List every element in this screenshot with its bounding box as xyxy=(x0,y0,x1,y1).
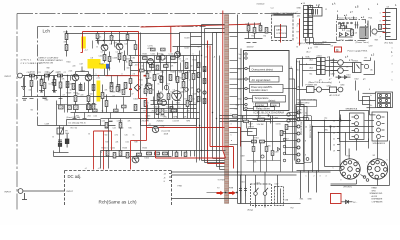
IC pin labels xyxy=(235,54,243,110)
terminal strip left of speaker blocks xyxy=(337,118,340,167)
bus turn to bottom xyxy=(202,159,225,170)
svg-text:C307: C307 xyxy=(249,124,253,126)
block relay driver xyxy=(254,104,275,110)
svg-text:0.5: 0.5 xyxy=(181,88,183,90)
svg-text:1.2: 1.2 xyxy=(116,52,119,54)
svg-text:RY601: RY601 xyxy=(353,61,359,63)
bus wires vertical center xyxy=(202,25,220,170)
wiring harness ribbon xyxy=(225,15,229,204)
svg-text:2.2k: 2.2k xyxy=(97,78,100,80)
svg-text:operation detect: operation detect xyxy=(251,89,268,92)
small box sw rear xyxy=(301,100,317,107)
svg-text:IC301 BLOCK DIAGRAM: IC301 BLOCK DIAGRAM xyxy=(254,110,285,114)
resistor network input filter xyxy=(30,74,63,92)
svg-text:3: 3 xyxy=(320,176,321,178)
svg-text:1.5k: 1.5k xyxy=(105,128,108,130)
svg-text:D1: D1 xyxy=(161,92,163,94)
extra red ticks rear connector xyxy=(383,13,386,33)
highlight yellow mid block xyxy=(88,59,101,69)
junction dots bus xyxy=(199,55,325,176)
svg-text:C9: C9 xyxy=(113,96,115,98)
svg-text:3: 3 xyxy=(380,21,381,23)
svg-text:▲: ▲ xyxy=(338,23,340,26)
svg-text:b: b xyxy=(72,75,73,77)
svg-text:D3: D3 xyxy=(168,84,170,86)
capacitor cluster digital supply xyxy=(245,23,268,43)
svg-text:R309: R309 xyxy=(241,156,245,158)
svg-text:22k: 22k xyxy=(116,142,119,144)
svg-text:POWER SW: POWER SW xyxy=(306,85,317,87)
svg-text:INPUT: INPUT xyxy=(5,76,12,78)
svg-text:560: 560 xyxy=(105,135,108,137)
svg-text:+2: +2 xyxy=(85,168,87,170)
red tick labels Rch top xyxy=(85,134,108,171)
svg-text:1.5k 3W: 1.5k 3W xyxy=(257,124,264,126)
micro text speckle layer xyxy=(29,47,217,144)
transistor Q105 input pair xyxy=(72,74,79,81)
svg-text:C510: C510 xyxy=(304,40,308,42)
svg-text:33k: 33k xyxy=(64,42,67,44)
socket wires xyxy=(331,139,390,186)
bias components under Q101 xyxy=(108,51,132,84)
ground input Lch xyxy=(21,78,26,90)
svg-text:0.22: 0.22 xyxy=(157,107,161,109)
svg-text:B+56V: B+56V xyxy=(185,38,191,40)
svg-text:C0: C0 xyxy=(193,99,195,101)
svg-text:4: 4 xyxy=(392,72,393,74)
highlight yellow vertical bar xyxy=(97,81,101,102)
svg-text:220: 220 xyxy=(157,74,160,76)
svg-text:(Case ID): (Case ID) xyxy=(162,131,171,133)
svg-text:1k: 1k xyxy=(158,84,160,86)
svg-text:2.2k: 2.2k xyxy=(69,71,73,73)
svg-text:▲11: ▲11 xyxy=(308,47,313,50)
svg-text:6: 6 xyxy=(297,38,298,40)
svg-text:1: 1 xyxy=(380,13,381,15)
bottom long wires xyxy=(172,171,343,204)
main P.W.B. box top edge xyxy=(180,33,272,57)
svg-text:C1: C1 xyxy=(246,24,248,26)
ground rail symbols xyxy=(22,99,63,101)
svg-text:4.7k: 4.7k xyxy=(114,43,118,45)
svg-text:2: 2 xyxy=(297,12,298,14)
red trace top bus xyxy=(141,24,281,53)
svg-text:R510: R510 xyxy=(323,42,327,44)
svg-text:47k: 47k xyxy=(128,121,131,123)
svg-text:4: 4 xyxy=(297,26,298,28)
svg-text:R155: R155 xyxy=(143,148,148,150)
svg-text:▲8: ▲8 xyxy=(327,56,330,59)
svg-text:Vcc: Vcc xyxy=(239,54,242,56)
power switch SW901 xyxy=(297,87,322,93)
note red annotation xyxy=(21,60,43,65)
svg-text:R1: R1 xyxy=(39,72,41,74)
svg-text:220: 220 xyxy=(56,72,59,74)
resistor row top of Rch xyxy=(102,151,169,157)
svg-text:INPUT: INPUT xyxy=(67,191,74,193)
svg-text:DC...: DC... xyxy=(353,202,358,204)
svg-text:▲: ▲ xyxy=(337,10,339,13)
svg-text:6V 7.5k: 6V 7.5k xyxy=(71,128,77,130)
svg-text:1: 1 xyxy=(392,48,393,50)
relay socket front xyxy=(340,159,360,179)
svg-text:CN1: CN1 xyxy=(300,199,304,201)
transistor Q101 xyxy=(101,44,108,51)
svg-text:▲7: ▲7 xyxy=(329,78,332,81)
connector CN301 xyxy=(296,105,304,164)
svg-text:CN(L,R) A6-B02: CN(L,R) A6-B02 xyxy=(300,121,303,136)
svg-text:X1234-00: X1234-00 xyxy=(257,4,265,6)
red tag B xyxy=(335,47,342,52)
red marker triangles top xyxy=(332,3,397,32)
svg-text:a: a xyxy=(96,74,97,76)
svg-text:▲B: ▲B xyxy=(355,6,359,9)
red trace signal path xyxy=(106,32,241,147)
relay RY601 xyxy=(353,63,362,73)
label switched unswitched xyxy=(297,99,318,105)
line transformer top xyxy=(308,6,322,17)
svg-text:5: 5 xyxy=(333,168,334,170)
svg-text:Q602: Q602 xyxy=(331,74,335,76)
label Q121 xyxy=(148,46,153,51)
red marks line transformer xyxy=(307,4,328,11)
svg-text:Power supply P.W.B.: Power supply P.W.B. xyxy=(348,50,369,53)
svg-text:2SJ: 2SJ xyxy=(88,116,91,118)
svg-text:RY301: RY301 xyxy=(254,138,259,140)
svg-text:0.22 5W: 0.22 5W xyxy=(173,121,180,123)
note text block coupling xyxy=(39,58,64,65)
tick row right of Rch box xyxy=(175,151,194,157)
svg-text:4 7 R 7 1 1: 4 7 R 7 1 1 xyxy=(21,60,32,62)
svg-text:0.6: 0.6 xyxy=(151,85,154,87)
svg-text:▲: ▲ xyxy=(325,8,327,11)
block counter xyxy=(256,103,280,107)
speaker wiring xyxy=(297,115,375,156)
NFB feed lines to speaker area xyxy=(220,115,297,122)
transistor Q103 xyxy=(116,43,123,50)
input jack Rch xyxy=(18,189,64,200)
svg-text:12: 12 xyxy=(305,113,307,115)
svg-text:0.5: 0.5 xyxy=(149,59,151,61)
inter socket connector xyxy=(361,175,369,182)
svg-text:0: 0 xyxy=(193,54,194,56)
svg-text:C25: C25 xyxy=(125,135,128,137)
diode thermal xyxy=(342,200,353,204)
svg-text:C2: C2 xyxy=(64,72,66,74)
svg-text:SPEAKER B: SPEAKER B xyxy=(373,142,386,145)
power transformer T501 xyxy=(360,21,368,39)
red dc detector box xyxy=(331,194,342,204)
input jack Lch xyxy=(18,73,41,78)
value labels digital xyxy=(246,24,266,49)
svg-text:▲9: ▲9 xyxy=(319,79,322,82)
svg-text:5: 5 xyxy=(231,135,232,137)
second stage resistors right of yellow xyxy=(87,85,108,113)
live assy box xyxy=(297,107,308,118)
svg-text:C309: C309 xyxy=(275,152,279,154)
svg-text:5: 5 xyxy=(392,80,393,82)
svg-text:(Power Trans): (Power Trans) xyxy=(356,41,369,44)
svg-text:220: 220 xyxy=(187,111,190,113)
psu micro labels xyxy=(185,12,377,56)
svg-text:PWR: PWR xyxy=(229,188,234,190)
capacitor C103 xyxy=(52,83,56,85)
svg-text:22k: 22k xyxy=(108,68,111,70)
svg-text:D2: D2 xyxy=(171,92,173,94)
speaker switch block B xyxy=(372,112,388,141)
svg-text:2: 2 xyxy=(392,56,393,58)
connector CN3 rear xyxy=(304,116,312,163)
svg-text:R307: R307 xyxy=(285,139,289,141)
resistor R113 xyxy=(59,82,62,88)
svg-text:+2: +2 xyxy=(98,168,100,170)
svg-text:10: 10 xyxy=(305,127,307,129)
svg-text:C502: C502 xyxy=(349,40,353,42)
NFB line 118 extension xyxy=(220,116,297,128)
svg-text:AC2: AC2 xyxy=(310,67,314,70)
transistor Q121 predriver xyxy=(173,47,202,58)
labels lower cluster xyxy=(102,121,150,160)
svg-text:47k: 47k xyxy=(171,66,174,68)
red dots stage markers xyxy=(98,75,148,99)
connector CN501 pair xyxy=(304,6,313,38)
svg-text:AC OUTLET: AC OUTLET xyxy=(330,94,341,97)
rectifier diodes power xyxy=(339,29,354,38)
connector rear panel xyxy=(386,9,397,40)
svg-text:(FRONT): (FRONT) xyxy=(344,186,353,188)
svg-text:B1: B1 xyxy=(185,99,187,101)
red arrow labels xyxy=(217,188,234,190)
svg-text:24: 24 xyxy=(187,68,189,70)
svg-text:In(R): In(R) xyxy=(238,79,243,81)
svg-text:3.3: 3.3 xyxy=(331,46,333,48)
resistor bank feedback xyxy=(65,34,127,91)
svg-text:1k: 1k xyxy=(142,66,144,68)
svg-text:8: 8 xyxy=(305,141,306,143)
svg-text:5W: 5W xyxy=(191,88,194,90)
svg-text:5: 5 xyxy=(380,29,381,31)
svg-text:47k: 47k xyxy=(62,79,65,81)
svg-text:20: 20 xyxy=(333,145,335,147)
svg-text:0.01: 0.01 xyxy=(126,142,129,144)
bus top feeders xyxy=(191,25,225,45)
svg-text:0.22: 0.22 xyxy=(94,116,98,118)
svg-text:C139: C139 xyxy=(45,124,50,126)
lower Lch feedback wires xyxy=(54,119,226,169)
svg-text:1: 1 xyxy=(231,114,232,116)
svg-text:0.8: 0.8 xyxy=(91,58,94,60)
svg-text:C105: C105 xyxy=(99,56,103,58)
svg-text:▲: ▲ xyxy=(391,51,393,54)
IC data control xyxy=(275,26,287,38)
red trace CN to power xyxy=(299,19,301,46)
svg-text:6: 6 xyxy=(305,155,306,157)
svg-text:C:SPEAKER: C:SPEAKER xyxy=(372,201,383,204)
svg-text:R31: R31 xyxy=(146,103,149,105)
svg-text:23: 23 xyxy=(333,127,335,129)
transistor Q119 xyxy=(132,156,139,163)
front VR adjust section xyxy=(54,101,101,153)
small parts under IC xyxy=(252,147,280,159)
svg-text:4: 4 xyxy=(326,176,327,178)
highlight blue mid bar xyxy=(106,64,109,69)
svg-text:2.3: 2.3 xyxy=(133,74,136,76)
ribbon stub ticks xyxy=(230,37,238,145)
svg-text:REAR: REAR xyxy=(372,187,378,190)
svg-text:100: 100 xyxy=(127,68,130,70)
label rear speaker switch note xyxy=(370,187,383,204)
differential pair tail resistors xyxy=(71,81,101,113)
relay box 2 xyxy=(275,187,284,206)
red trace Rch top xyxy=(156,151,226,159)
svg-text:7: 7 xyxy=(380,37,381,39)
red arrow to relay xyxy=(207,192,238,194)
input stage vertical drops xyxy=(23,76,71,113)
svg-text:47: 47 xyxy=(154,70,156,72)
right column red marks far right xyxy=(392,48,393,82)
svg-text:C21: C21 xyxy=(120,121,123,123)
svg-text:220: 220 xyxy=(73,66,76,68)
output stage components xyxy=(157,55,195,115)
component column bias xyxy=(197,63,206,104)
red micro labels xyxy=(91,52,171,92)
svg-text:A:OFF: A:OFF xyxy=(372,195,378,198)
bus wires red pair xyxy=(208,41,211,164)
svg-text:R3 1k: R3 1k xyxy=(41,79,46,81)
svg-text:1k: 1k xyxy=(126,62,128,64)
svg-text:R153: R153 xyxy=(123,148,128,150)
red labels CN301 xyxy=(305,113,307,157)
red pin labels CN601 xyxy=(310,59,314,76)
svg-text:▲: ▲ xyxy=(306,63,308,66)
CN301 stub wires xyxy=(286,113,298,155)
power line components under IC xyxy=(241,113,290,136)
svg-text:R2: R2 xyxy=(252,36,254,38)
svg-text:3: 3 xyxy=(392,64,393,66)
outer chassis frame (dash-dot) xyxy=(17,14,301,212)
svg-text:C15: C15 xyxy=(154,107,157,109)
svg-text:47: 47 xyxy=(132,94,134,96)
svg-text:detect: detect xyxy=(269,100,276,103)
micro text speckle psu xyxy=(317,7,390,88)
svg-text:Relay driver: Relay driver xyxy=(256,107,270,111)
svg-text:24: 24 xyxy=(333,121,335,123)
clutter pass stubs center xyxy=(37,41,181,119)
ground symbols input filter xyxy=(39,91,57,93)
svg-text:D502: D502 xyxy=(347,31,351,33)
svg-text:SW: SW xyxy=(47,68,50,70)
svg-text:C-4: C-4 xyxy=(271,8,274,10)
resistor R303 on nfb line xyxy=(233,115,249,123)
svg-text:D615: D615 xyxy=(145,158,150,160)
transistor Q111 xyxy=(145,83,152,90)
svg-text:4.7: 4.7 xyxy=(63,95,65,97)
long vertical wire left of system control xyxy=(238,15,242,204)
diodes psu2 xyxy=(336,58,375,79)
red marker extra psu xyxy=(308,4,387,50)
svg-text:(For Sub): (For Sub) xyxy=(385,43,394,45)
svg-text:DATA: DATA xyxy=(276,29,282,32)
svg-text:Rch(Same as Lch): Rch(Same as Lch) xyxy=(99,200,138,205)
block overcurrent detect xyxy=(250,66,283,72)
svg-text:R21: R21 xyxy=(140,80,143,82)
red marks right cluster xyxy=(298,56,330,89)
Rch board box (dashed) xyxy=(65,171,172,207)
svg-text:0.6: 0.6 xyxy=(110,44,113,46)
labels under IC xyxy=(248,116,279,129)
red trace muting xyxy=(131,128,147,170)
svg-text:1: 1 xyxy=(306,176,307,178)
red bus turn xyxy=(208,147,234,169)
svg-text:-1.2: -1.2 xyxy=(85,50,88,52)
svg-text:2.2k: 2.2k xyxy=(166,63,169,65)
verticals under IC to bottom xyxy=(247,111,281,172)
value labels cluster A xyxy=(31,32,199,118)
svg-text:TO P.W.B: TO P.W.B xyxy=(218,180,226,182)
svg-text:R110: R110 xyxy=(67,62,71,64)
svg-text:4.7k: 4.7k xyxy=(47,72,50,74)
svg-text:C501: C501 xyxy=(340,40,344,42)
svg-text:P.RB: P.RB xyxy=(178,186,183,188)
svg-text:F501: F501 xyxy=(369,18,373,20)
svg-text:52: 52 xyxy=(207,47,209,49)
svg-text:2SC3281: 2SC3281 xyxy=(142,121,149,123)
transistor Q107 input pair xyxy=(85,74,92,81)
resistor R107 xyxy=(43,83,46,89)
Lch board frame (dash-dot) xyxy=(38,27,206,126)
relay drop wires xyxy=(241,172,278,208)
highlight yellow mid bar xyxy=(100,64,106,69)
block temperature detect xyxy=(253,96,286,103)
svg-text:SPEAKER SW:: SPEAKER SW: xyxy=(370,192,383,195)
svg-text:R49: R49 xyxy=(135,142,138,144)
relay socket rear xyxy=(367,159,387,179)
svg-text:Lch: Lch xyxy=(43,29,51,34)
micro labels pass2 xyxy=(27,63,195,119)
connector CN601 pair xyxy=(317,58,326,75)
svg-text:2: 2 xyxy=(314,176,315,178)
speaker panel feed wires xyxy=(356,81,376,115)
svg-text:100/16V: 100/16V xyxy=(247,47,255,49)
svg-text:▲: ▲ xyxy=(367,23,369,26)
terminal strip numbers xyxy=(333,121,335,153)
svg-text:Temp: Temp xyxy=(237,99,242,101)
svg-text:D501: D501 xyxy=(339,27,343,29)
svg-text:Power supply P.W.B.: Power supply P.W.B. xyxy=(338,17,359,20)
svg-text:60Hz: 60Hz xyxy=(341,85,345,87)
lower mid rail xyxy=(101,119,197,126)
svg-text:INPUT: INPUT xyxy=(5,192,12,194)
svg-text:C17: C17 xyxy=(195,103,198,105)
wire ladder horizontals Lch amp xyxy=(41,56,200,119)
svg-text:C3: C3 xyxy=(258,24,260,26)
svg-text:L1: L1 xyxy=(179,107,181,109)
block power amp state detect xyxy=(250,85,284,93)
svg-text:R45: R45 xyxy=(129,128,132,130)
svg-text:R119: R119 xyxy=(100,64,104,66)
regulator transistors psu2 xyxy=(331,60,344,74)
red pin labels rear connector xyxy=(380,13,381,39)
svg-text:AC signal detect: AC signal detect xyxy=(252,78,271,82)
vas stage extra verticals xyxy=(131,51,200,161)
transistor Q117 muting xyxy=(152,126,158,132)
svg-text:R25: R25 xyxy=(164,59,167,61)
svg-text:10: 10 xyxy=(180,78,182,80)
svg-text:0.47: 0.47 xyxy=(80,64,84,66)
wire main signal Lch xyxy=(26,76,131,126)
electrolytic caps bottom xyxy=(239,186,247,197)
svg-text:0.01: 0.01 xyxy=(315,47,318,49)
